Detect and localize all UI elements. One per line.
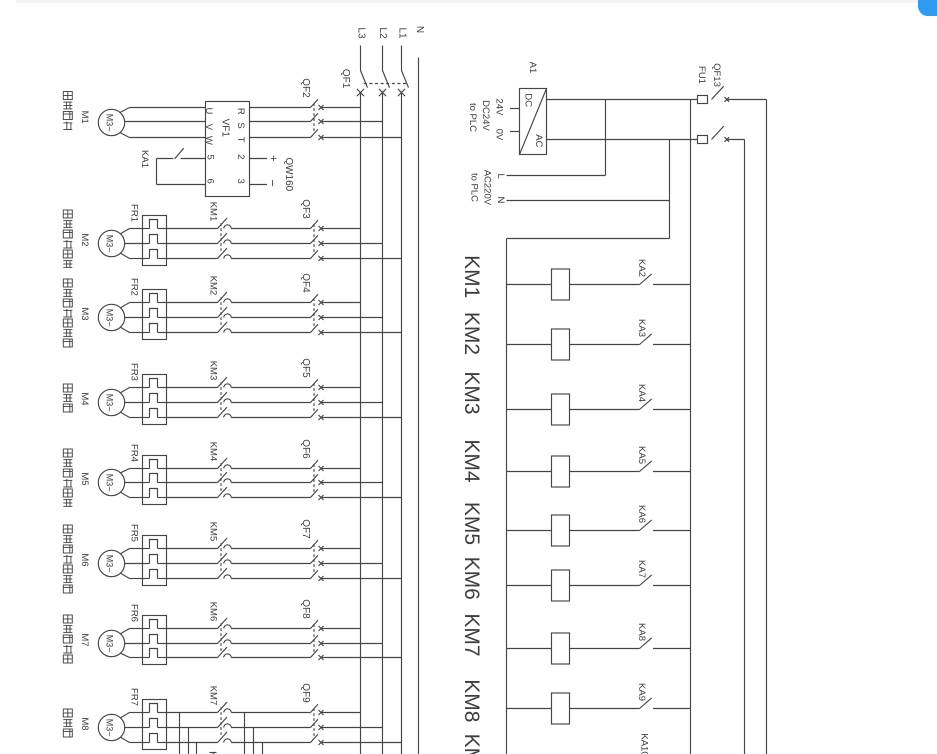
svg-text:3: 3 — [235, 179, 246, 184]
svg-text:KA2: KA2 — [636, 259, 647, 277]
label KM1 large — [460, 255, 483, 298]
wire QF8 to bus — [321, 629, 402, 658]
svg-text:QF13: QF13 — [711, 63, 722, 87]
svg-text:KA5: KA5 — [636, 446, 647, 464]
thermal relay FR7 — [128, 688, 166, 749]
contactor KM1 main contacts — [167, 202, 311, 259]
breaker QF9 — [300, 683, 324, 745]
coil KM2 — [507, 329, 640, 360]
svg-text:AC220V: AC220V — [482, 170, 493, 206]
svg-text:M3~: M3~ — [105, 394, 115, 412]
svg-text:KM3: KM3 — [208, 361, 219, 381]
wire motor M8 to FR7 — [121, 713, 143, 743]
wire motor M5 to FR4 — [121, 469, 143, 498]
label KM4 large — [460, 439, 483, 483]
svg-text:KM2: KM2 — [460, 312, 483, 355]
svg-text:KA7: KA7 — [636, 560, 647, 578]
label KM8 (cut off) — [210, 753, 217, 754]
svg-text:KM4: KM4 — [460, 439, 483, 483]
power supply A1 — [520, 62, 547, 155]
svg-text:KM2: KM2 — [208, 276, 219, 296]
svg-text:KM1: KM1 — [460, 255, 483, 298]
svg-text:to PLC: to PLC — [468, 173, 479, 202]
wire motor M7 to FR6 — [121, 629, 143, 658]
thermal relay FR4 — [128, 444, 166, 504]
svg-text:QF5: QF5 — [300, 358, 311, 378]
relay contact KA4 — [636, 384, 691, 409]
svg-text:KM9: KM9 — [460, 734, 483, 754]
thermal relay FR3 — [128, 363, 166, 424]
wire QF6 to bus — [321, 469, 402, 498]
svg-text:FU1: FU1 — [696, 66, 707, 84]
label M6 chinese — [63, 525, 72, 593]
motor M8 — [79, 714, 125, 740]
svg-text:KA6: KA6 — [636, 505, 647, 523]
contactor KM7 main contacts — [167, 686, 311, 743]
coil KM5 — [507, 515, 640, 546]
motor M1 — [79, 109, 125, 135]
svg-text:A1: A1 — [527, 62, 538, 74]
label KM3 large — [460, 371, 483, 414]
svg-text:L2: L2 — [377, 27, 388, 39]
wire QF2 to bus — [321, 108, 402, 138]
bus line L3 with label — [355, 27, 366, 754]
svg-text:W: W — [203, 136, 214, 145]
svg-text:M3: M3 — [79, 307, 90, 320]
wire QF5 to bus — [321, 388, 402, 418]
thermal relay FR5 — [128, 524, 166, 585]
svg-text:KA3: KA3 — [636, 319, 647, 337]
svg-text:−: − — [266, 180, 280, 187]
breaker QF6 — [300, 439, 324, 500]
svg-text:6: 6 — [204, 179, 215, 184]
fuse FU1 — [696, 66, 708, 143]
relay contact KA8 — [636, 623, 691, 648]
motor M6 — [79, 550, 125, 576]
svg-text:to PLC: to PLC — [467, 103, 478, 132]
svg-text:KM5: KM5 — [460, 502, 483, 545]
label QW160 — [283, 157, 294, 191]
svg-text:2: 2 — [235, 154, 246, 159]
wire motor M1 to VF1 — [120, 108, 205, 138]
svg-text:QF2: QF2 — [300, 78, 311, 98]
svg-text:L1: L1 — [397, 27, 408, 39]
breaker QF1 — [340, 69, 409, 96]
label KM8 large — [460, 679, 483, 722]
svg-text:M5: M5 — [79, 472, 90, 485]
coil KM3 — [507, 394, 640, 425]
svg-text:R: R — [235, 108, 246, 115]
svg-text:QF8: QF8 — [300, 599, 311, 619]
svg-text:KA10: KA10 — [638, 733, 649, 754]
svg-text:KM7: KM7 — [208, 686, 219, 706]
breaker QF13 — [711, 63, 729, 142]
svg-text:L3: L3 — [355, 27, 366, 39]
label M5 chinese — [63, 449, 72, 506]
coil KM1 — [507, 269, 640, 300]
contactor KM3 main contacts — [167, 361, 311, 418]
contactor KM4 main contacts — [167, 442, 311, 498]
svg-text:U: U — [203, 107, 214, 114]
bus line L2 with label — [377, 27, 388, 754]
svg-text:M1: M1 — [79, 111, 90, 124]
svg-text:KM7: KM7 — [460, 613, 483, 656]
wire AC220V L to PLC — [495, 100, 606, 179]
bus line L1 with label — [397, 27, 408, 754]
svg-text:M2: M2 — [79, 233, 90, 246]
relay contact KA5 — [636, 446, 691, 471]
label KM5 large — [460, 502, 483, 545]
svg-text:M6: M6 — [79, 553, 90, 566]
svg-text:FR4: FR4 — [128, 444, 139, 462]
label M7 chinese — [63, 615, 72, 663]
svg-text:V: V — [203, 124, 214, 131]
coil KM7 — [507, 633, 640, 664]
svg-text:KM8: KM8 — [460, 679, 483, 722]
label M4 chinese — [63, 384, 72, 412]
label M8 chinese — [63, 709, 72, 737]
svg-text:M8: M8 — [79, 717, 90, 730]
svg-text:DC: DC — [523, 93, 534, 107]
svg-text:FR6: FR6 — [128, 604, 139, 622]
relay contact KA7 — [636, 560, 691, 585]
motor M2 — [79, 230, 125, 256]
svg-text:DC24V: DC24V — [480, 100, 491, 131]
svg-text:M3~: M3~ — [105, 555, 115, 573]
wire motor M2 to FR1 — [121, 229, 143, 259]
thermal relay FR2 — [128, 278, 166, 339]
thermal relay FR6 — [128, 604, 166, 664]
svg-text:QF3: QF3 — [300, 199, 311, 219]
wire QF3 to bus — [321, 229, 402, 259]
wire AC220V N to PLC — [495, 140, 670, 239]
svg-text:FR3: FR3 — [128, 363, 139, 381]
coil KM8 — [507, 693, 640, 724]
contactor KM2 main contacts — [167, 276, 311, 333]
contactor KM6 main contacts — [167, 602, 311, 658]
svg-text:KA8: KA8 — [636, 623, 647, 641]
label M1 chinese — [63, 92, 72, 130]
label M3 chinese — [63, 279, 72, 347]
wire motor M6 to FR5 — [121, 549, 143, 579]
wire ladder feed — [507, 239, 670, 754]
wire A1 ac line side — [547, 100, 698, 140]
wire QF7 to bus — [321, 549, 402, 579]
svg-text:M3~: M3~ — [105, 235, 115, 253]
motor M3 — [79, 304, 125, 330]
svg-text:KM6: KM6 — [208, 602, 219, 622]
svg-text:QF7: QF7 — [300, 519, 311, 539]
svg-text:M3~: M3~ — [105, 474, 115, 492]
svg-text:5: 5 — [204, 155, 215, 160]
wire ladder right rail — [690, 100, 692, 754]
svg-text:KM1: KM1 — [208, 202, 219, 222]
wire taps to KM8 (cut off) — [180, 713, 263, 754]
svg-text:M4: M4 — [79, 392, 90, 405]
svg-text:KA4: KA4 — [636, 384, 647, 402]
wire QF9 to bus — [321, 713, 402, 743]
blue corner chip — [918, 0, 937, 16]
motor M5 — [79, 469, 125, 495]
svg-text:KM5: KM5 — [208, 522, 219, 542]
thermal relay FR1 — [128, 204, 166, 265]
svg-text:M3~: M3~ — [105, 309, 115, 327]
bus line N with label — [414, 26, 425, 754]
svg-text:FR7: FR7 — [128, 688, 139, 706]
wire motor M3 to FR2 — [121, 303, 143, 333]
breaker QF2 — [250, 78, 324, 140]
svg-text:KM4: KM4 — [208, 442, 219, 462]
relay contact KA3 — [636, 319, 691, 344]
svg-text:M3~: M3~ — [105, 635, 115, 653]
label KM6 large — [460, 557, 483, 600]
label KM2 large — [460, 312, 483, 355]
breaker QF7 — [300, 519, 324, 581]
relay contact KA1 — [139, 148, 206, 184]
svg-text:KM3: KM3 — [460, 371, 483, 414]
svg-text:VF1: VF1 — [220, 119, 231, 138]
wire motor M4 to FR3 — [121, 388, 143, 418]
label KM7 large — [460, 613, 483, 656]
wire VF1 terminals 2,3 to QW160 — [250, 155, 280, 187]
svg-text:QW160: QW160 — [283, 157, 294, 191]
svg-text:24V: 24V — [494, 99, 505, 117]
label M2 chinese — [63, 210, 72, 267]
wire QF4 to bus — [321, 303, 402, 333]
relay contact KA9 — [636, 683, 691, 708]
svg-text:KA1: KA1 — [139, 150, 150, 168]
motor M4 — [79, 389, 125, 415]
svg-text:FR1: FR1 — [128, 204, 139, 222]
svg-text:M7: M7 — [79, 633, 90, 646]
svg-text:FR5: FR5 — [128, 524, 139, 542]
svg-text:M3~: M3~ — [105, 719, 115, 737]
motor M7 — [79, 630, 125, 656]
svg-text:L: L — [495, 174, 506, 179]
svg-text:QF6: QF6 — [300, 439, 311, 459]
breaker QF3 — [300, 199, 324, 261]
relay contact KA2 — [636, 259, 691, 284]
svg-text:QF1: QF1 — [340, 69, 351, 89]
svg-text:M3~: M3~ — [105, 114, 115, 132]
label KA10 (cut off) — [638, 733, 649, 754]
svg-text:T: T — [235, 137, 246, 143]
label KM9 large (cut off) — [460, 734, 483, 754]
label AC220V to PLC — [468, 170, 492, 206]
wire QF13 to right rails — [727, 100, 767, 754]
svg-text:FR2: FR2 — [128, 278, 139, 296]
svg-text:+: + — [267, 155, 279, 161]
svg-text:QF4: QF4 — [300, 273, 311, 293]
relay contact KA6 — [636, 505, 691, 530]
svg-text:AC: AC — [533, 134, 544, 147]
svg-text:N: N — [495, 197, 506, 204]
breaker QF5 — [300, 358, 324, 420]
svg-text:S: S — [235, 122, 246, 128]
coil KM6 — [507, 570, 640, 601]
svg-text:KA9: KA9 — [636, 683, 647, 701]
wire A1 dc outputs — [467, 99, 520, 141]
svg-text:KM6: KM6 — [460, 557, 483, 600]
VFD VF1 — [203, 102, 250, 197]
svg-text:N: N — [414, 26, 425, 33]
top edge strip — [16, 0, 931, 3]
contactor KM5 main contacts — [167, 522, 311, 579]
svg-text:QF9: QF9 — [300, 683, 311, 703]
breaker QF4 — [300, 273, 324, 335]
coil KM4 — [507, 456, 640, 487]
svg-text:0V: 0V — [494, 129, 505, 141]
breaker QF8 — [300, 599, 324, 660]
